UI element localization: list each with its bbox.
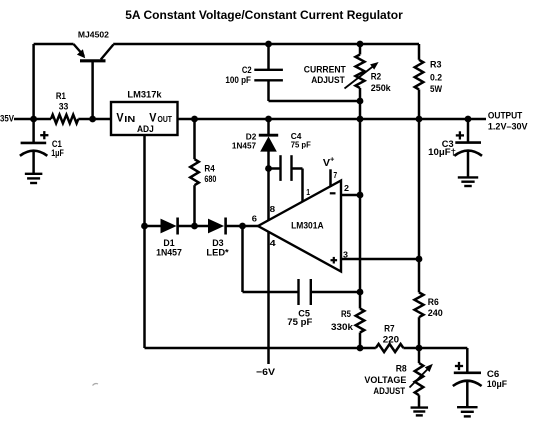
node R5 bottom junction: [357, 345, 364, 352]
wire R8 top lead: [418, 348, 421, 363]
ground below C3: [458, 176, 478, 178]
wire C6 ground lead: [466, 381, 469, 408]
resistor R5: [356, 309, 365, 333]
svg-text:IN: IN: [124, 115, 135, 124]
wire R4 top lead: [193, 119, 196, 159]
wire Q1 collector top rail: [113, 43, 419, 46]
svg-text:680: 680: [204, 174, 216, 185]
node C5 right junction: [357, 289, 364, 296]
node Q1 base junction: [89, 116, 96, 123]
node rail sense junction: [416, 116, 423, 123]
svg-text:R1: R1: [56, 91, 67, 102]
svg-text:1N457: 1N457: [232, 140, 256, 150]
wire output sense vertical: [418, 121, 421, 293]
svg-text:ADJUST: ADJUST: [373, 386, 405, 397]
wire D1 to D3: [178, 225, 208, 228]
capacitor C2 plates: [254, 69, 283, 71]
capacitor C4 plates: [279, 155, 281, 181]
svg-text:8: 8: [270, 204, 276, 214]
svg-text:R5: R5: [341, 309, 352, 320]
wire op-amp pin 1 lead: [301, 169, 304, 202]
speckle mark: [93, 384, 99, 386]
node C2 top rail junction: [265, 41, 272, 48]
resistor R1: [51, 115, 78, 124]
resistor R4: [190, 159, 199, 185]
node VOUT R4 junction: [191, 116, 198, 123]
wire op-amp pin 2 stub: [341, 194, 360, 197]
svg-text:R3: R3: [430, 60, 442, 71]
svg-text:LM301A: LM301A: [291, 221, 324, 232]
capacitor C6 polarized: [454, 371, 481, 374]
svg-text:R2: R2: [371, 72, 381, 83]
wire R2 top lead: [359, 44, 362, 55]
wire C2 to R2 bottom: [269, 100, 361, 103]
svg-text:ADJ: ADJ: [137, 124, 154, 134]
wire Q1 base lead: [91, 61, 94, 120]
wire R2 bottom lead: [359, 88, 362, 101]
svg-text:1.2V–30V: 1.2V–30V: [488, 121, 528, 132]
svg-text:OUTPUT: OUTPUT: [488, 111, 523, 122]
wire R6 bottom lead: [418, 317, 421, 348]
wire inverting net vertical: [359, 101, 362, 309]
svg-text:2: 2: [344, 183, 349, 193]
wire bottom rail left: [145, 347, 376, 350]
svg-text:7: 7: [333, 170, 337, 180]
capacitor C3 polarized: [455, 141, 481, 144]
diode D1: [161, 219, 177, 234]
svg-text:35V: 35V: [0, 114, 15, 125]
wire C5 right lead: [311, 291, 360, 294]
svg-text:5A Constant Voltage/Constant C: 5A Constant Voltage/Constant Current Reg…: [125, 8, 403, 22]
wire C1 ground lead: [32, 151, 35, 174]
node ADJ D1 junction: [141, 223, 148, 230]
svg-text:MJ4502: MJ4502: [78, 29, 109, 39]
node 35V input junction: [30, 116, 37, 123]
wire LM317 ADJ lead: [143, 135, 146, 226]
wire C3 ground lead: [467, 151, 470, 178]
svg-text:240: 240: [428, 308, 443, 319]
node D2 C4 pin8 junction: [265, 165, 272, 172]
wire R7 to R8 node: [403, 347, 419, 350]
wire D3 to op-amp pin 6: [227, 225, 259, 228]
node R2 bottom C2 junction: [357, 98, 364, 105]
wire R3 top lead: [418, 44, 421, 60]
svg-text:1μF: 1μF: [51, 148, 64, 159]
capacitor C6 plus sign: [455, 365, 463, 367]
node pin2 junction: [357, 192, 364, 199]
svg-text:LED*: LED*: [206, 248, 229, 259]
wire C5 drop from pin 6 net: [241, 226, 244, 292]
svg-text:75 pF: 75 pF: [287, 317, 312, 328]
svg-text:1N457: 1N457: [156, 248, 182, 259]
svg-text:5W: 5W: [430, 84, 443, 95]
svg-text:10μF†: 10μF†: [428, 147, 456, 158]
capacitor C1 plus sign: [40, 134, 48, 136]
resistor R8 zigzag: [415, 363, 424, 395]
transistor Q1 MJ4502: [74, 44, 85, 56]
wire op-amp pin 3 stub: [341, 258, 419, 261]
svg-text:0.2: 0.2: [430, 73, 442, 84]
potentiometer R8 arrow: [410, 367, 431, 388]
svg-text:250k: 250k: [371, 83, 392, 94]
svg-text:220: 220: [383, 334, 399, 345]
resistor R7: [376, 344, 404, 352]
wire C4 left lead: [269, 167, 281, 170]
resistor R6: [415, 292, 424, 317]
op-amp minus sign: [330, 192, 336, 194]
svg-text:1: 1: [306, 187, 310, 197]
wire C1 top lead: [32, 119, 35, 143]
svg-text:R8: R8: [396, 364, 408, 375]
svg-text:+: +: [330, 155, 335, 164]
svg-text:V: V: [149, 110, 156, 124]
svg-text:10μF: 10μF: [487, 379, 507, 390]
wire R8 node to C6: [419, 347, 467, 350]
wire C4 right lead: [292, 167, 303, 170]
node R6 R7 R8 C6 junction: [416, 345, 423, 352]
svg-text:75 pF: 75 pF: [291, 140, 311, 150]
op-amp plus sign: [331, 259, 338, 261]
capacitor C5 plates: [297, 279, 299, 305]
op-amp U2 LM301A triangle: [258, 181, 341, 272]
ground below C6: [457, 406, 478, 408]
wire D2 top lead: [267, 119, 270, 135]
ground below R8: [411, 406, 429, 408]
svg-text:4: 4: [270, 238, 276, 248]
svg-text:LM317k: LM317k: [127, 90, 162, 101]
potentiometer R2 arrow: [345, 65, 376, 89]
wire op-amp pin 7 lead: [329, 169, 332, 187]
wire VOUT output rail: [178, 118, 487, 121]
svg-text:6: 6: [252, 213, 258, 223]
regulator U1 LM317k box: [111, 102, 178, 135]
wire 35V input lead: [14, 118, 51, 121]
diode D3: [208, 219, 224, 234]
wire C2 bottom lead: [267, 80, 270, 101]
svg-text:R7: R7: [384, 324, 395, 335]
wire input node up: [32, 44, 35, 119]
svg-text:R6: R6: [428, 297, 439, 308]
svg-text:VOLTAGE: VOLTAGE: [364, 375, 407, 386]
ground below C1: [25, 173, 42, 175]
node C3 output junction: [465, 116, 472, 123]
svg-text:3: 3: [343, 249, 348, 259]
svg-text:330k: 330k: [331, 322, 354, 333]
node pin3 junction: [416, 256, 423, 263]
node D2 rail junction: [265, 116, 272, 123]
resistor R2 zigzag: [356, 55, 365, 89]
wire C2 top lead: [267, 44, 270, 70]
wire C5 left lead: [243, 291, 299, 294]
node rail inverting junction: [357, 116, 364, 123]
wire R8 ground lead: [418, 395, 421, 407]
svg-text:OUT: OUT: [158, 115, 173, 124]
wire op-amp pin 4 to -6V: [267, 232, 270, 365]
resistor R3: [415, 60, 424, 90]
wire ADJ node to D1: [145, 225, 161, 228]
diode D2: [259, 134, 278, 137]
wire R5 bottom lead: [359, 333, 362, 349]
wire D2 bottom lead: [267, 152, 270, 169]
svg-text:33: 33: [59, 101, 69, 112]
wire R4 bottom lead: [193, 185, 196, 226]
svg-text:100 pF: 100 pF: [225, 75, 251, 86]
node R2 top rail junction: [357, 41, 364, 48]
node R4 bottom junction: [191, 223, 198, 230]
wire ADJ node down: [143, 226, 146, 348]
svg-text:ADJUST: ADJUST: [311, 75, 345, 86]
wire C6 top lead: [466, 348, 469, 373]
wire op-amp pin 8 lead: [267, 169, 270, 221]
svg-text:V: V: [116, 110, 123, 124]
wire R1 to LM317 VIN: [78, 118, 111, 121]
wire R3 bottom lead: [418, 90, 421, 121]
svg-text:−6V: −6V: [256, 367, 276, 378]
node C5 pin6 junction: [239, 223, 246, 230]
capacitor C1 polarized: [21, 142, 47, 145]
wire C3 top lead: [467, 119, 470, 143]
wire to Q1 emitter: [34, 43, 74, 46]
capacitor C3 plus sign: [456, 134, 464, 136]
